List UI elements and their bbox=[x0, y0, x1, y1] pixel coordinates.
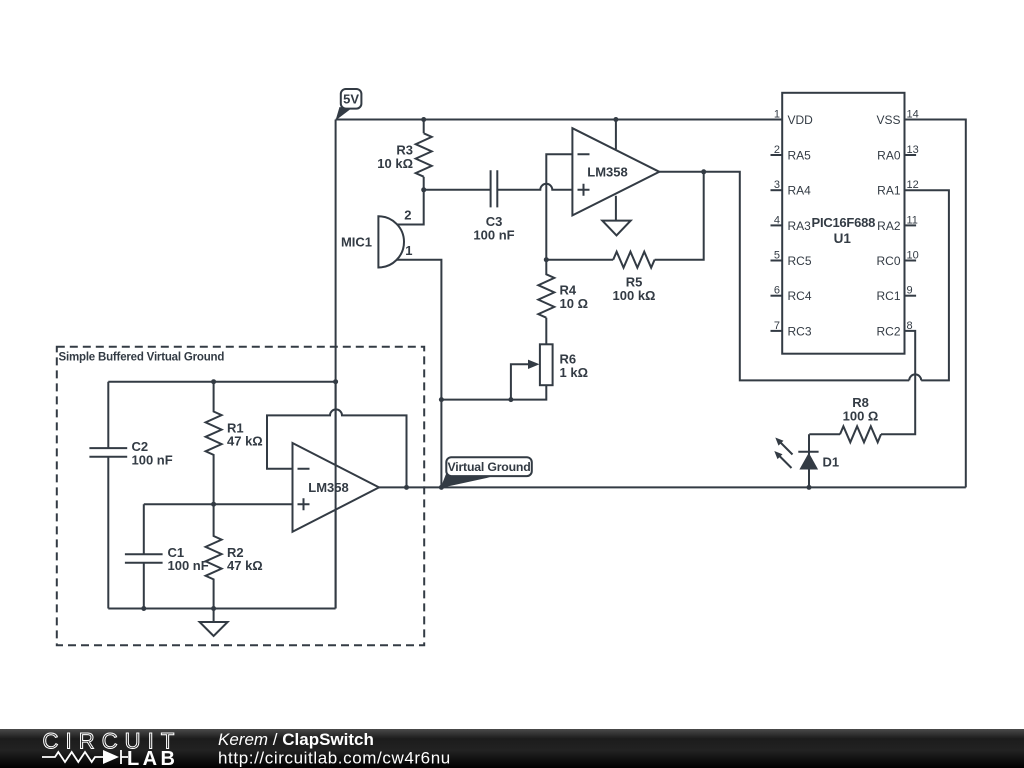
wire: C1 branch bbox=[143, 504, 145, 608]
svg-text:VSS: VSS bbox=[876, 113, 900, 127]
svg-text:2: 2 bbox=[404, 208, 411, 223]
footer CircuitLab logo bbox=[42, 729, 181, 765]
svg-text:7: 7 bbox=[774, 320, 780, 332]
capacitor C2 bbox=[89, 448, 127, 457]
svg-text:RA5: RA5 bbox=[788, 149, 812, 163]
wire: 5V corner down to box top rail and through to bottom rail bbox=[335, 120, 337, 609]
svg-text:47 kΩ: 47 kΩ bbox=[227, 434, 263, 449]
wire: op-amp output to RA1 pin 12 with hop bbox=[659, 172, 949, 381]
wire: op-amp negative feedback to R4/R5 node bbox=[546, 154, 572, 259]
wire: pass-through over buffer op-amp bbox=[335, 382, 337, 609]
svg-text:10 Ω: 10 Ω bbox=[560, 296, 589, 311]
svg-text:1 kΩ: 1 kΩ bbox=[560, 365, 589, 380]
svg-text:RA2: RA2 bbox=[877, 219, 901, 233]
wire: RC2 pin 8 down to R8 bbox=[881, 331, 915, 434]
svg-text:RA1: RA1 bbox=[877, 184, 901, 198]
svg-text:PIC16F688: PIC16F688 bbox=[812, 215, 876, 230]
op-amp U2 (signal amplifier LM358) bbox=[572, 128, 659, 215]
svg-text:LAB: LAB bbox=[127, 748, 178, 768]
svg-text:5V: 5V bbox=[343, 92, 359, 107]
svg-text:100 kΩ: 100 kΩ bbox=[613, 288, 656, 303]
resistor R2 bbox=[206, 504, 222, 608]
svg-text:12: 12 bbox=[907, 179, 919, 191]
node: junction dots bbox=[141, 117, 811, 611]
footer bar bbox=[0, 729, 1024, 768]
wire: op-amp power pin to 5V rail bbox=[615, 120, 617, 150]
wire: mic pin 1 down to virtual ground rail bbox=[397, 260, 441, 488]
wire: 5V rail to VDD pin1 bbox=[336, 119, 783, 121]
svg-text:14: 14 bbox=[907, 109, 919, 121]
svg-text:http://circuitlab.com/cw4r6nu: http://circuitlab.com/cw4r6nu bbox=[218, 749, 451, 768]
wire: VSS pin 14 around right side to virtual ground rail bbox=[905, 120, 966, 488]
op-amp U3 (virtual ground buffer LM358) bbox=[293, 443, 380, 532]
wire: R4 bottom to R6 top bbox=[545, 318, 547, 345]
svg-text:1: 1 bbox=[774, 109, 780, 121]
pin 2 RA5 bbox=[771, 154, 783, 156]
resistor R1 bbox=[206, 382, 222, 505]
svg-text:RC5: RC5 bbox=[788, 254, 812, 268]
node label: 5V callout bbox=[336, 107, 352, 121]
svg-text:2: 2 bbox=[774, 144, 780, 156]
svg-text:13: 13 bbox=[907, 144, 919, 156]
wire: middle rail to + input of buffer op-amp bbox=[144, 503, 293, 505]
svg-text:6: 6 bbox=[774, 285, 780, 297]
ground (op-amp) bbox=[615, 196, 617, 221]
svg-text:Kerem / ClapSwitch: Kerem / ClapSwitch bbox=[218, 730, 374, 749]
wire: box bottom rail bbox=[108, 608, 335, 610]
resistor R4 bbox=[538, 260, 554, 318]
svg-text:3: 3 bbox=[774, 179, 780, 191]
capacitor C1 bbox=[125, 554, 163, 563]
wire: R6 bottom to mic line bbox=[441, 385, 546, 399]
svg-text:4: 4 bbox=[774, 214, 780, 226]
svg-text:RC3: RC3 bbox=[788, 324, 812, 338]
wire: R6 wiper tie bbox=[511, 364, 529, 399]
svg-text:U1: U1 bbox=[834, 231, 852, 246]
wire: C3 right plate to op-amp + input with hop bbox=[497, 184, 572, 190]
ground (virtual ground box) bbox=[213, 609, 215, 623]
svg-text:1: 1 bbox=[405, 243, 412, 258]
svg-text:LM358: LM358 bbox=[308, 480, 348, 495]
svg-text:100 nF: 100 nF bbox=[168, 558, 209, 573]
wire: R8 left to LED D1 top bbox=[809, 434, 840, 487]
wire: R5 branch from node to op-amp output bbox=[546, 172, 703, 260]
resistor R5 bbox=[613, 252, 654, 268]
svg-text:RC1: RC1 bbox=[876, 289, 900, 303]
wire: buffer op-amp feedback loop with hop bbox=[267, 409, 407, 487]
svg-text:100 nF: 100 nF bbox=[132, 452, 173, 467]
virtual ground dashed enclosure box bbox=[57, 347, 424, 645]
svg-text:VDD: VDD bbox=[788, 113, 814, 127]
svg-text:10 kΩ: 10 kΩ bbox=[377, 156, 413, 171]
pin 4 RA3 bbox=[771, 224, 783, 226]
pin 13 RA0 bbox=[905, 154, 917, 156]
LED D1 bbox=[798, 451, 818, 453]
svg-text:RC4: RC4 bbox=[788, 289, 812, 303]
IC U1 PIC16F688 body bbox=[782, 93, 904, 354]
svg-text:10: 10 bbox=[907, 250, 919, 262]
svg-text:RA4: RA4 bbox=[788, 184, 812, 198]
pin 9 RC1 bbox=[905, 295, 917, 297]
pin 7 RC3 bbox=[771, 330, 783, 332]
wire: box left branch with C2 bbox=[107, 382, 109, 609]
svg-text:LM358: LM358 bbox=[587, 165, 627, 180]
svg-text:Simple Buffered Virtual Ground: Simple Buffered Virtual Ground bbox=[59, 352, 225, 364]
wire: R3 top to 5V rail / R3 bottom node to mic pin 2 bbox=[398, 120, 424, 225]
svg-text:100 Ω: 100 Ω bbox=[843, 408, 879, 423]
capacitor C3 bbox=[491, 170, 498, 207]
svg-text:47 kΩ: 47 kΩ bbox=[227, 558, 263, 573]
svg-text:RC0: RC0 bbox=[876, 254, 900, 268]
svg-text:100 nF: 100 nF bbox=[473, 227, 514, 242]
wire: virtual ground output rail bbox=[379, 486, 966, 488]
svg-text:MIC1: MIC1 bbox=[341, 235, 372, 250]
svg-text:D1: D1 bbox=[823, 455, 840, 470]
svg-text:11: 11 bbox=[907, 214, 918, 226]
svg-text:RC2: RC2 bbox=[876, 324, 900, 338]
svg-text:RA0: RA0 bbox=[877, 149, 901, 163]
microphone MIC1 bbox=[378, 216, 404, 267]
resistor R3 bbox=[416, 133, 432, 176]
pin 6 RC4 bbox=[771, 295, 783, 297]
node label: Virtual Ground callout bbox=[441, 474, 491, 488]
svg-text:RA3: RA3 bbox=[788, 219, 812, 233]
pin 10 RC0 bbox=[905, 260, 917, 262]
svg-text:5: 5 bbox=[774, 250, 780, 262]
svg-text:Virtual Ground: Virtual Ground bbox=[447, 460, 530, 474]
resistor R8 bbox=[840, 426, 881, 442]
potentiometer R6 bbox=[540, 344, 553, 385]
pin 11 RA2 bbox=[905, 224, 917, 226]
svg-text:8: 8 bbox=[907, 320, 913, 332]
pin 3 RA4 bbox=[771, 189, 783, 191]
svg-text:9: 9 bbox=[907, 285, 913, 297]
wire: box top rail bbox=[108, 381, 335, 383]
wire: R3 node to C3 left plate bbox=[424, 189, 491, 191]
pin 5 RC5 bbox=[771, 260, 783, 262]
